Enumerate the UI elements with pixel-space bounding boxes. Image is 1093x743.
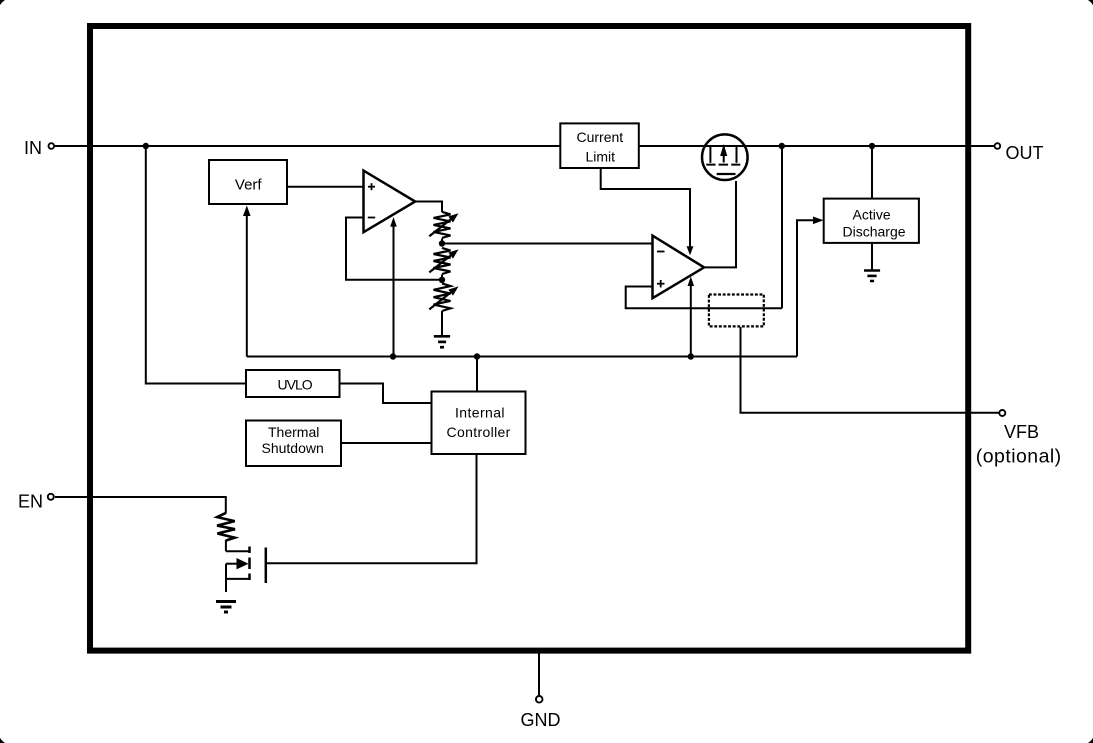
svg-text:(optional): (optional) bbox=[976, 445, 1062, 467]
svg-text:GND: GND bbox=[521, 710, 561, 730]
svg-text:IN: IN bbox=[24, 138, 42, 158]
svg-text:Controller: Controller bbox=[447, 424, 511, 440]
svg-text:VFB: VFB bbox=[1004, 422, 1039, 442]
svg-text:Discharge: Discharge bbox=[843, 224, 906, 240]
svg-text:Limit: Limit bbox=[586, 149, 616, 165]
svg-text:Shutdown: Shutdown bbox=[262, 440, 324, 456]
svg-text:Internal: Internal bbox=[455, 404, 505, 420]
svg-text:Active: Active bbox=[853, 206, 891, 222]
svg-text:Verf: Verf bbox=[235, 177, 263, 194]
svg-text:Thermal: Thermal bbox=[268, 424, 319, 440]
svg-text:EN: EN bbox=[18, 491, 43, 511]
svg-text:UVLO: UVLO bbox=[278, 376, 313, 392]
svg-text:OUT: OUT bbox=[1006, 143, 1044, 163]
svg-text:Current: Current bbox=[577, 129, 624, 145]
